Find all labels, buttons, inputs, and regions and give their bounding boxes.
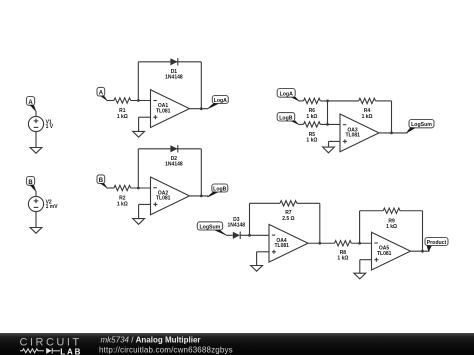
wire — [139, 116, 151, 118]
svg-text:1 kΩ: 1 kΩ — [117, 114, 128, 120]
wire — [411, 250, 430, 252]
wire — [422, 211, 424, 251]
svg-text:Product: Product — [427, 240, 447, 246]
wire — [320, 123, 340, 125]
node B flag (stage 2 input) — [97, 175, 107, 188]
wire — [250, 202, 281, 204]
junction (R6 / R5 / OA3-) — [326, 100, 329, 103]
wire — [190, 108, 209, 110]
wire — [308, 242, 335, 244]
wire — [35, 132, 37, 148]
wire — [240, 234, 269, 236]
svg-text:LogSum: LogSum — [200, 224, 221, 230]
svg-text:LogSum: LogSum — [411, 122, 432, 128]
wire — [319, 203, 321, 243]
node LogA flag (OA1 out) — [208, 96, 229, 109]
svg-text:LogA: LogA — [214, 98, 228, 104]
wire — [256, 252, 258, 265]
wire — [360, 210, 384, 212]
resistor R9 — [383, 208, 400, 230]
ground (OA5 +) — [354, 273, 366, 279]
wire — [190, 195, 209, 197]
wire — [351, 242, 371, 244]
wire — [328, 141, 330, 147]
junction (R2 / D2 / OA2-) — [137, 187, 140, 190]
wire — [138, 61, 201, 63]
resistor R2 — [114, 185, 131, 207]
svg-text:1N4148: 1N4148 — [165, 74, 183, 80]
voltage source V1 — [28, 116, 53, 131]
wire — [35, 111, 37, 116]
svg-text:2.5 Ω: 2.5 Ω — [282, 216, 294, 222]
resistor R7 — [280, 201, 297, 222]
wire — [35, 191, 37, 196]
wire — [137, 149, 139, 188]
svg-text:LogA: LogA — [280, 91, 294, 97]
wire — [299, 123, 304, 125]
junction (OA1 out) — [200, 107, 203, 110]
wire — [359, 211, 361, 244]
wire — [226, 234, 233, 236]
wire — [107, 187, 114, 189]
wire — [200, 62, 202, 109]
diode D1 — [165, 58, 183, 80]
wire — [138, 204, 140, 218]
node LogA flag (OA3 input) — [277, 89, 299, 102]
wire — [139, 203, 151, 205]
node LogB flag (OA3 input) — [277, 113, 299, 125]
node A flag (stage 1 input) — [97, 87, 107, 100]
svg-text:LAB: LAB — [60, 347, 82, 355]
junction (R8 / R9 / OA5-) — [358, 242, 361, 245]
junction (OA4 out / R7) — [318, 242, 321, 245]
junction (R1 / D1 / OA1-) — [137, 99, 140, 102]
junction (OA3 out) — [390, 132, 393, 135]
wire — [360, 259, 372, 261]
svg-text:TL081: TL081 — [156, 109, 171, 115]
wire — [107, 100, 114, 102]
resistor R4 — [359, 98, 376, 120]
wire — [379, 132, 408, 134]
svg-text:TL081: TL081 — [345, 133, 360, 139]
svg-text:TL081: TL081 — [156, 196, 171, 202]
wire — [327, 101, 329, 125]
wire — [257, 251, 269, 253]
junction (R5 / OA3-) — [326, 123, 329, 126]
wire — [131, 100, 151, 102]
svg-text:1 kΩ: 1 kΩ — [386, 224, 397, 230]
wire — [359, 260, 361, 273]
diode D3 — [228, 217, 246, 239]
svg-text:1 kΩ: 1 kΩ — [362, 114, 373, 120]
op-amp OA5 TL081 — [372, 232, 411, 270]
svg-text:1 kΩ: 1 kΩ — [337, 255, 348, 261]
FOOTER — [0, 333, 474, 355]
wire — [249, 203, 251, 235]
node LogB flag (OA2 out) — [207, 184, 228, 197]
wire — [138, 117, 140, 131]
wire — [376, 100, 392, 102]
wire — [320, 100, 358, 102]
node LogSum flag (OA3 out) — [406, 120, 434, 134]
wire — [138, 148, 201, 150]
voltage source V2 — [28, 196, 58, 211]
ground (OA2 +) — [133, 219, 145, 225]
junction (D3 / R7 / OA4-) — [248, 234, 251, 237]
ground (OA4 +) — [251, 266, 263, 272]
op-amp OA3 TL081 — [340, 114, 379, 152]
svg-text:TL081: TL081 — [377, 251, 392, 257]
wire — [200, 149, 202, 196]
wire — [137, 62, 139, 101]
svg-text:1 V: 1 V — [46, 124, 54, 130]
svg-text:1N4148: 1N4148 — [165, 162, 183, 168]
resistor R5 — [304, 122, 321, 144]
svg-text:1 kΩ: 1 kΩ — [306, 114, 317, 120]
svg-text:1 kΩ: 1 kΩ — [306, 138, 317, 144]
op-amp OA1 TL081 — [151, 90, 190, 128]
wire — [400, 210, 423, 212]
node B flag (at V2) — [27, 177, 37, 192]
junction (OA5 out / R9) — [421, 250, 424, 253]
wire — [329, 140, 341, 142]
op-amp OA2 TL081 — [151, 177, 190, 215]
ground (OA3 +) — [323, 147, 335, 153]
wire — [35, 212, 37, 228]
svg-text:LogB: LogB — [213, 187, 227, 193]
wire — [131, 187, 151, 189]
resistor R1 — [114, 98, 131, 120]
ground (V1) — [30, 148, 42, 154]
op-amp OA4 TL081 — [269, 224, 308, 262]
svg-text:LogB: LogB — [279, 115, 293, 121]
svg-text:1 kΩ: 1 kΩ — [117, 201, 128, 207]
svg-text:1 mV: 1 mV — [46, 204, 59, 210]
junction (OA2 out) — [200, 195, 203, 198]
node Product flag (OA5 out) — [425, 238, 448, 252]
svg-text:TL081: TL081 — [274, 243, 289, 249]
svg-text:http://circuitlab.com/cwn63688: http://circuitlab.com/cwn63688zgbys — [99, 345, 233, 354]
wire — [297, 202, 320, 204]
node LogSum flag (OA4 input) — [197, 222, 227, 236]
node A flag (at V1) — [27, 97, 37, 112]
diode D2 — [165, 145, 183, 168]
svg-text:1N4148: 1N4148 — [228, 222, 246, 228]
resistor R8 — [335, 241, 352, 262]
wire — [299, 100, 304, 102]
wire — [391, 101, 393, 133]
resistor R6 — [304, 98, 321, 120]
svg-text:mk5734 / Analog Multiplier: mk5734 / Analog Multiplier — [101, 335, 201, 344]
ground (V2) — [30, 228, 42, 234]
ground (OA1 +) — [133, 131, 145, 137]
